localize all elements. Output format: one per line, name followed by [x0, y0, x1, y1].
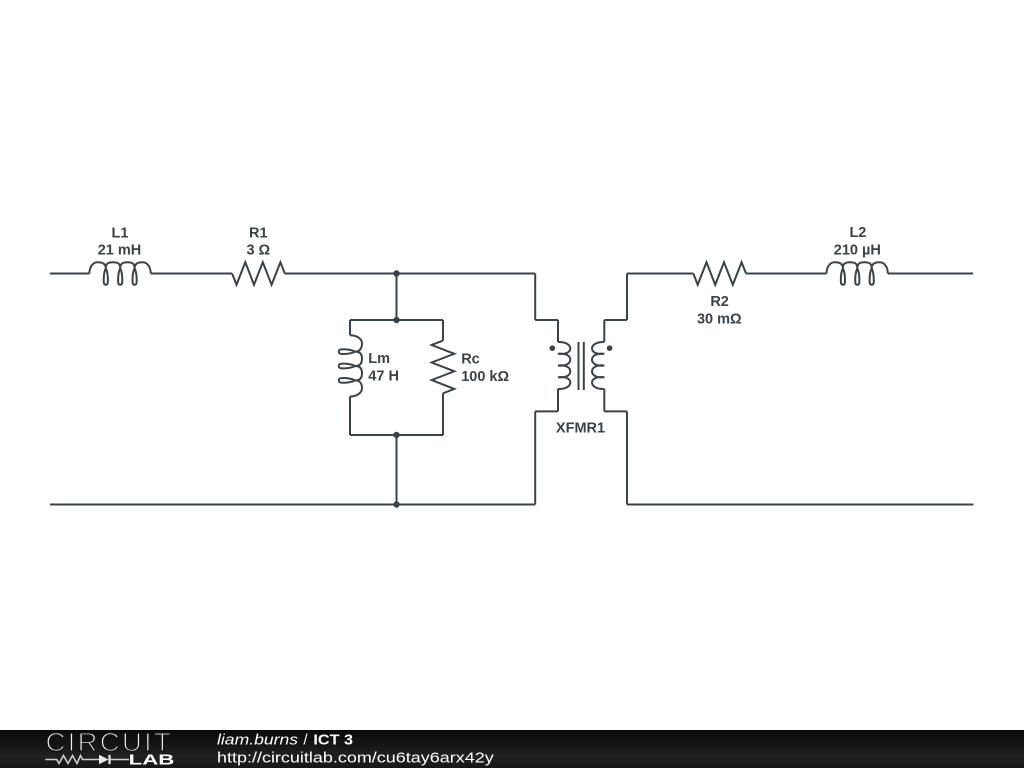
logo diode [99, 755, 109, 764]
svg-text:http://circuitlab.com/cu6tay6a: http://circuitlab.com/cu6tay6arx42y [217, 749, 494, 766]
wire Lm top lead [349, 320, 351, 335]
wire L2 to right edge [888, 273, 973, 275]
node B junction [393, 317, 399, 323]
wire secondary bottom vertical [626, 411, 628, 504]
wire primary bottom vertical [534, 411, 536, 504]
wire R1 to transformer [285, 273, 535, 275]
wire primary bottom step [535, 410, 558, 412]
wire secondary top lead [603, 320, 605, 342]
wire secondary top step [604, 319, 627, 321]
svg-text:210 µH: 210 µH [834, 243, 881, 259]
inductor L1 [89, 262, 150, 284]
svg-text:R2: R2 [710, 294, 729, 310]
wire Rc top lead [442, 320, 444, 341]
wire secondary bottom lead [603, 389, 605, 411]
svg-text:LAB: LAB [129, 753, 175, 768]
node C junction [393, 432, 399, 438]
wire parallel block top rail [350, 319, 443, 321]
wire L1 to R1 [151, 273, 232, 275]
svg-text:R1: R1 [249, 225, 268, 241]
wire Lm bottom lead [349, 397, 351, 436]
wire R2 to L2 [746, 273, 827, 275]
svg-text:ICT 3: ICT 3 [313, 731, 353, 748]
node A junction [393, 270, 399, 276]
svg-text:30 mΩ: 30 mΩ [697, 312, 742, 328]
wire primary top lead [557, 320, 559, 342]
svg-text:liam.burns: liam.burns [217, 731, 299, 748]
wire primary top vertical [534, 274, 536, 321]
wire top-left lead [50, 273, 89, 275]
resistor Rc [432, 341, 455, 394]
svg-text:Lm: Lm [368, 351, 390, 367]
wire Rc bottom lead [442, 393, 444, 435]
transformer core line 1 [578, 342, 580, 390]
wire node C to bottom rail [396, 435, 398, 505]
resistor R2 [693, 262, 746, 285]
wire secondary top vertical [626, 274, 628, 321]
secondary polarity dot [607, 345, 613, 351]
transformer core line 2 [583, 342, 585, 390]
svg-text:L1: L1 [112, 225, 129, 241]
transformer XFMR1 primary winding [558, 342, 570, 389]
wire primary top step [535, 319, 558, 321]
svg-text:100 kΩ: 100 kΩ [461, 369, 509, 385]
svg-text:L2: L2 [849, 225, 866, 241]
svg-text:47 H: 47 H [368, 368, 399, 384]
wire bottom-left rail [50, 504, 535, 506]
inductor Lm [339, 335, 362, 396]
wire transformer to R2 [627, 273, 693, 275]
node D junction [393, 501, 399, 507]
logo wire with resistor zigzag [45, 756, 99, 764]
svg-text:Rc: Rc [461, 351, 480, 367]
svg-text:XFMR1: XFMR1 [556, 421, 605, 437]
wire secondary bottom step [604, 410, 627, 412]
primary polarity dot [550, 345, 556, 351]
svg-text:21 mH: 21 mH [98, 243, 142, 259]
inductor L2 [827, 262, 888, 284]
wire parallel block bottom rail [350, 434, 443, 436]
wire bottom-right rail [627, 504, 974, 506]
wire primary bottom lead [557, 389, 559, 411]
wire node A to parallel block [396, 274, 398, 321]
transformer XFMR1 secondary winding [592, 342, 604, 389]
logo wire to LAB [111, 759, 130, 761]
svg-text:3 Ω: 3 Ω [246, 243, 270, 259]
resistor R1 [232, 262, 285, 285]
